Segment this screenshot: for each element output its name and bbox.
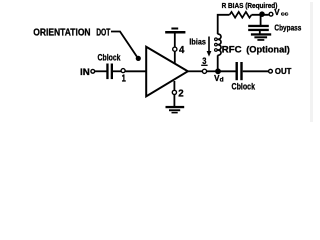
svg-text:2: 2 [178, 89, 184, 100]
pin 3 terminal [202, 69, 206, 73]
leader line to orientation dot [111, 32, 137, 57]
junction dot at Cbypass tap [259, 11, 265, 17]
svg-text:1: 1 [122, 74, 127, 85]
svg-text:Cblock: Cblock [232, 82, 256, 93]
terminal IN [91, 69, 95, 73]
resistor R BIAS zigzag [230, 12, 252, 18]
scan edge artifact right [310, 2, 313, 122]
wire node Vd to Cblock (output) [218, 70, 236, 72]
wire IN to Cblock [95, 70, 107, 72]
svg-text:4: 4 [179, 45, 185, 56]
svg-text:Cbypass: Cbypass [274, 22, 301, 32]
pin 2 terminal [172, 90, 176, 94]
svg-text:V: V [274, 8, 280, 17]
wire pin 4 to amplifier [174, 51, 176, 64]
capacitor Cblock (output) [236, 62, 243, 80]
label Vcc [274, 8, 288, 17]
inductor RFC coil [215, 34, 221, 55]
svg-text:Ibias: Ibias [189, 37, 206, 47]
svg-text:d: d [220, 77, 224, 84]
op-amp U1 amplifier triangle [146, 47, 188, 97]
wire pin 1 to amplifier [125, 70, 146, 72]
svg-text:IN: IN [80, 67, 90, 77]
orientation dot [136, 56, 141, 61]
svg-text:RFC: RFC [222, 44, 242, 55]
ground (below pin 2) [166, 106, 185, 114]
wire amplifier output to pin 3 [188, 70, 203, 72]
ground (above pin 4, inverted) [165, 28, 185, 34]
wire pin 2 to amplifier [173, 81, 175, 90]
svg-text:ORIENTATION: ORIENTATION [33, 27, 90, 38]
wire Cblock to pin 1 [113, 70, 121, 72]
current arrow Ibias [207, 37, 212, 57]
svg-text:Cblock: Cblock [98, 53, 122, 64]
ground (below Cbypass) [251, 33, 271, 41]
wire junction to Cbypass [260, 16, 262, 26]
svg-text:OUT: OUT [275, 66, 292, 76]
wire pin 4 to ground [174, 33, 176, 47]
wire RFC top to resistor [218, 15, 230, 34]
pin 1 terminal [121, 69, 125, 73]
terminal OUT [269, 69, 273, 73]
wire pin 2 to ground [173, 95, 175, 107]
svg-text:cc: cc [281, 11, 288, 17]
capacitor Cbypass [248, 25, 269, 31]
wire Cblock to OUT [243, 70, 269, 72]
terminal Vcc [269, 12, 273, 16]
svg-text:DOT: DOT [96, 27, 110, 38]
node label Vd [214, 74, 224, 83]
pin 4 terminal [173, 47, 177, 51]
svg-text:(Optional): (Optional) [246, 44, 290, 55]
wire resistor to Vcc [252, 14, 269, 16]
capacitor Cblock (input) [106, 64, 113, 80]
wire Cbypass to ground [259, 31, 261, 34]
node Vd junction dot [215, 68, 221, 74]
svg-text:R BIAS (Required): R BIAS (Required) [222, 1, 278, 10]
wire node Vd up to RFC [217, 55, 219, 69]
wire pin 3 to node Vd [207, 70, 218, 72]
